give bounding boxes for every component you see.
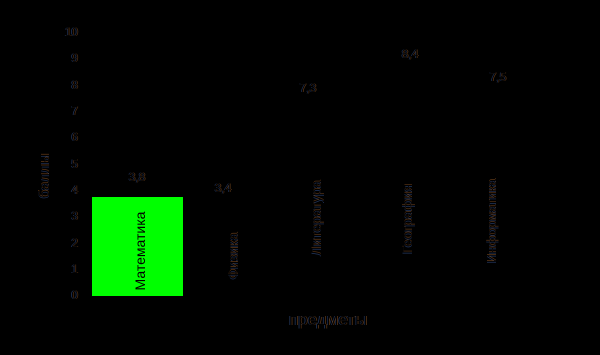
- y-axis tick label 4: [38, 184, 78, 196]
- y-axis tick label 9: [38, 52, 78, 64]
- y-axis tick label 7: [38, 105, 78, 117]
- y-axis tick label 0: [38, 289, 78, 301]
- x-axis title: [289, 311, 367, 328]
- value label bar 2: [193, 182, 253, 194]
- y-axis tick label 6: [38, 131, 78, 143]
- bar 2 category label: [226, 233, 240, 280]
- bar 3 category label: [309, 180, 323, 255]
- value label bar 5: [468, 71, 528, 83]
- bar 1 category label: [133, 212, 147, 291]
- value label bar 4: [380, 48, 440, 60]
- green bar (Математика): [92, 197, 183, 296]
- y-axis tick label 8: [38, 79, 78, 91]
- y-axis tick label 3: [38, 210, 78, 222]
- y-axis tick label 10: [38, 26, 78, 38]
- y-axis tick label 2: [38, 237, 78, 249]
- y-axis tick label 1: [38, 263, 78, 275]
- bar 5 category label: [485, 179, 499, 263]
- y-axis title: [38, 154, 52, 199]
- y-axis tick label 5: [38, 158, 78, 170]
- bar 4 category label: [400, 184, 414, 254]
- value label bar 1: [107, 171, 167, 183]
- value label bar 3: [278, 82, 338, 94]
